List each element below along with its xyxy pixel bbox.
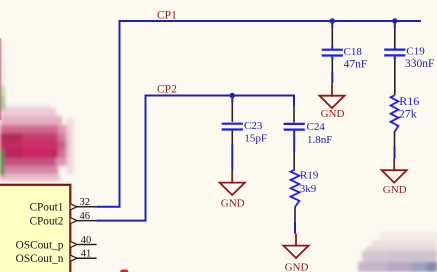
- svg-text:330nF: 330nF: [405, 58, 434, 70]
- svg-text:CP1: CP1: [157, 9, 177, 21]
- svg-text:41: 41: [81, 249, 92, 260]
- svg-text:32: 32: [80, 197, 91, 208]
- svg-text:GND: GND: [221, 197, 245, 209]
- svg-text:R19: R19: [300, 170, 319, 182]
- svg-text:27k: 27k: [399, 107, 417, 121]
- svg-text:GND: GND: [285, 261, 309, 272]
- svg-text:GND: GND: [321, 108, 345, 120]
- svg-text:OSCout_p: OSCout_p: [16, 239, 64, 251]
- svg-text:CPout2: CPout2: [29, 216, 63, 228]
- svg-text:40: 40: [81, 235, 92, 246]
- svg-text:46: 46: [80, 211, 91, 222]
- svg-text:C19: C19: [406, 46, 425, 58]
- svg-text:OSCout_n: OSCout_n: [16, 253, 64, 265]
- svg-text:CPout1: CPout1: [29, 202, 63, 214]
- svg-text:1.8nF: 1.8nF: [307, 134, 332, 146]
- svg-text:C23: C23: [244, 120, 263, 132]
- svg-text:GND: GND: [383, 184, 407, 196]
- svg-text:C18: C18: [344, 46, 363, 58]
- svg-text:CP2: CP2: [157, 84, 177, 96]
- svg-text:C24: C24: [307, 121, 326, 133]
- svg-text:47nF: 47nF: [344, 58, 368, 70]
- svg-text:3k9: 3k9: [300, 183, 317, 195]
- svg-text:15pF: 15pF: [244, 132, 267, 144]
